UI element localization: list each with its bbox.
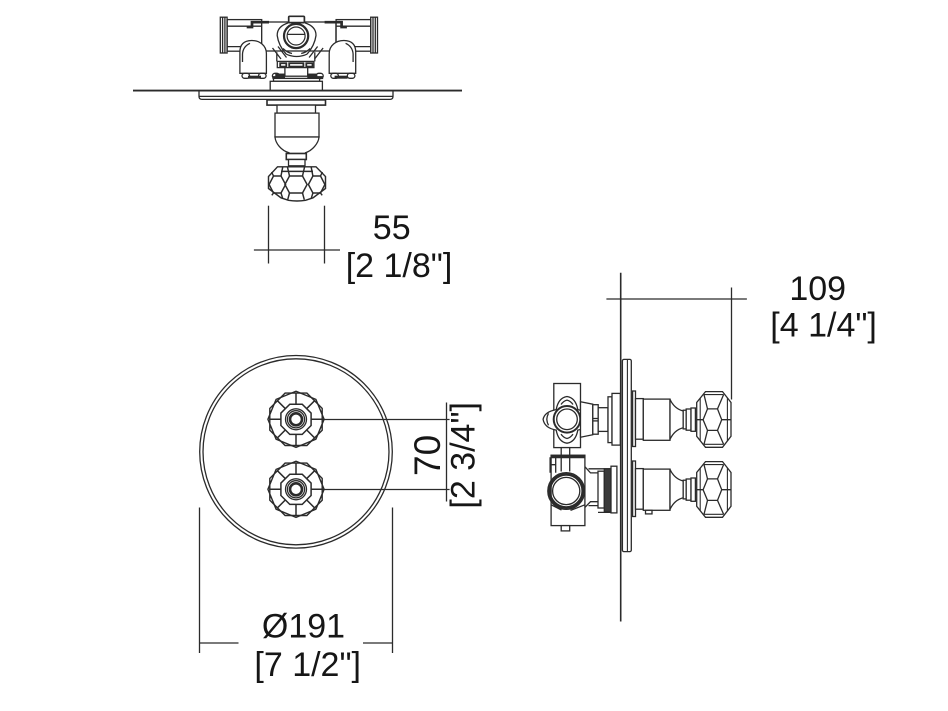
svg-text:[4 1/4"]: [4 1/4"] [770, 307, 877, 345]
svg-text:[2 1/8"]: [2 1/8"] [346, 247, 453, 285]
svg-text:[7 1/2"]: [7 1/2"] [254, 646, 361, 684]
svg-text:Ø191: Ø191 [262, 608, 345, 646]
svg-text:[2 3/4"]: [2 3/4"] [445, 402, 483, 509]
svg-text:70: 70 [407, 435, 448, 476]
svg-text:109: 109 [789, 270, 846, 308]
svg-text:55: 55 [373, 209, 411, 247]
